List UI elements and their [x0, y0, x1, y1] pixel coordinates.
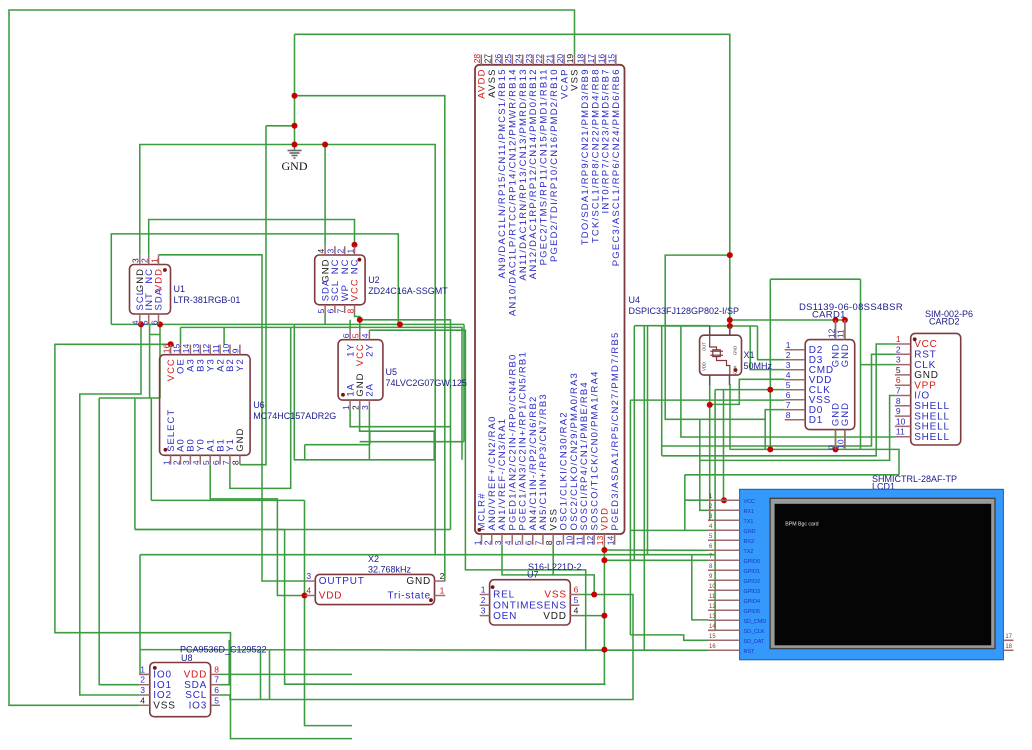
svg-text:GND: GND — [406, 576, 431, 587]
svg-text:5: 5 — [786, 380, 791, 390]
svg-text:U2: U2 — [368, 275, 380, 285]
svg-text:ONTIME: ONTIME — [493, 600, 537, 611]
svg-text:OEN: OEN — [493, 611, 517, 622]
svg-text:6: 6 — [896, 375, 901, 385]
svg-text:15: 15 — [607, 54, 617, 64]
svg-text:10: 10 — [896, 416, 906, 426]
svg-text:1: 1 — [345, 249, 355, 254]
svg-text:1: 1 — [140, 664, 145, 674]
svg-text:5: 5 — [214, 695, 219, 705]
svg-text:11: 11 — [211, 344, 221, 353]
svg-text:11: 11 — [896, 427, 905, 437]
svg-text:4: 4 — [786, 370, 791, 380]
svg-text:GPIO0: GPIO0 — [744, 559, 760, 565]
svg-text:U6: U6 — [253, 400, 265, 410]
svg-text:RX2: RX2 — [744, 539, 755, 545]
svg-text:18: 18 — [576, 54, 586, 64]
svg-text:3: 3 — [306, 571, 311, 581]
svg-text:10: 10 — [221, 343, 231, 353]
svg-text:17: 17 — [1005, 634, 1012, 640]
svg-text:6: 6 — [149, 320, 159, 325]
svg-text:11: 11 — [836, 329, 846, 338]
svg-text:2: 2 — [140, 675, 145, 685]
svg-text:5: 5 — [896, 365, 901, 375]
svg-text:AN10/DAC1LP/RTCC/RP14/CN12/PMW: AN10/DAC1LP/RTCC/RP14/CN12/PMWR/RB14 — [508, 68, 519, 316]
svg-text:2A: 2A — [365, 383, 376, 397]
svg-text:VSS: VSS — [570, 68, 581, 91]
svg-text:4: 4 — [574, 606, 579, 616]
svg-text:16: 16 — [709, 644, 716, 650]
svg-text:MC74HC157ADR2G: MC74HC157ADR2G — [253, 411, 336, 421]
svg-text:TX1: TX1 — [744, 519, 754, 525]
svg-text:1: 1 — [440, 586, 445, 596]
svg-text:6: 6 — [341, 333, 351, 338]
svg-text:2: 2 — [483, 540, 493, 545]
svg-text:TCK/SCL1/RP8/CN22/PMD4/RB8: TCK/SCL1/RP8/CN22/PMD4/RB8 — [590, 68, 601, 243]
svg-text:11: 11 — [709, 594, 716, 600]
svg-text:19: 19 — [565, 54, 575, 64]
svg-text:11: 11 — [575, 536, 585, 545]
svg-text:13: 13 — [595, 535, 605, 545]
svg-text:VDD: VDD — [702, 362, 707, 371]
svg-text:3: 3 — [360, 405, 370, 410]
svg-text:6: 6 — [524, 540, 534, 545]
svg-text:SHELL: SHELL — [914, 432, 950, 443]
svg-text:6: 6 — [786, 390, 791, 400]
svg-text:21: 21 — [545, 54, 555, 64]
svg-text:GND: GND — [282, 159, 308, 173]
svg-text:SENS: SENS — [536, 600, 566, 611]
svg-text:PGEC2/TMS/RP11/CN15/PMD1/RB11: PGEC2/TMS/RP11/CN15/PMD1/RB11 — [539, 68, 550, 265]
svg-text:2: 2 — [896, 344, 901, 354]
svg-text:12: 12 — [201, 343, 211, 353]
svg-text:50MHz: 50MHz — [744, 361, 773, 371]
svg-text:8: 8 — [231, 460, 241, 465]
svg-text:8: 8 — [786, 410, 791, 420]
svg-text:14: 14 — [605, 535, 615, 545]
svg-text:6: 6 — [214, 685, 219, 695]
svg-text:18: 18 — [1005, 644, 1012, 650]
svg-text:VCAP: VCAP — [559, 68, 570, 99]
svg-text:SD_CLK: SD_CLK — [744, 629, 765, 635]
svg-text:15: 15 — [171, 343, 181, 353]
svg-text:3: 3 — [326, 249, 336, 254]
svg-text:17: 17 — [586, 54, 596, 64]
svg-text:5: 5 — [513, 540, 523, 545]
svg-text:6: 6 — [574, 585, 579, 595]
svg-text:CARD2: CARD2 — [929, 317, 960, 327]
svg-text:2: 2 — [336, 249, 346, 254]
svg-text:2: 2 — [351, 405, 361, 410]
svg-text:AVSS: AVSS — [487, 68, 498, 97]
svg-text:VDD: VDD — [319, 591, 343, 602]
svg-text:X2: X2 — [368, 554, 379, 564]
svg-text:16: 16 — [596, 54, 606, 64]
svg-text:2: 2 — [171, 460, 181, 465]
svg-text:74LVC2G07GW,125: 74LVC2G07GW,125 — [386, 378, 467, 388]
svg-text:VSS: VSS — [153, 701, 175, 712]
svg-text:9: 9 — [554, 540, 564, 545]
svg-text:1: 1 — [481, 585, 486, 595]
svg-text:TDO/SDA1/RP9/CN21/PMD3/RB9: TDO/SDA1/RP9/CN21/PMD3/RB9 — [580, 68, 591, 245]
svg-text:25: 25 — [503, 54, 513, 64]
svg-text:26: 26 — [493, 54, 503, 64]
svg-text:3: 3 — [493, 540, 503, 545]
svg-text:3: 3 — [896, 355, 901, 365]
svg-text:1: 1 — [472, 540, 482, 545]
svg-text:U5: U5 — [386, 367, 398, 377]
svg-text:ZD24C16A-SSGMT: ZD24C16A-SSGMT — [368, 286, 448, 296]
svg-text:GPIO1: GPIO1 — [744, 569, 760, 575]
svg-text:3: 3 — [786, 360, 791, 370]
svg-text:7: 7 — [896, 386, 901, 396]
svg-text:5: 5 — [316, 309, 326, 314]
svg-text:12: 12 — [585, 535, 595, 545]
svg-text:2: 2 — [786, 350, 791, 360]
svg-text:VDD: VDD — [543, 611, 567, 622]
svg-text:3: 3 — [181, 460, 191, 465]
svg-text:CARD1: CARD1 — [812, 310, 846, 321]
svg-text:1: 1 — [896, 334, 901, 344]
svg-text:DSPIC33FJ128GP802-I/SP: DSPIC33FJ128GP802-I/SP — [629, 306, 740, 316]
svg-text:2: 2 — [481, 595, 486, 605]
svg-text:10: 10 — [836, 439, 846, 449]
svg-text:2: 2 — [440, 571, 445, 581]
svg-text:14: 14 — [181, 343, 191, 353]
svg-text:6: 6 — [326, 309, 336, 314]
svg-text:3: 3 — [481, 606, 486, 616]
svg-text:2Y: 2Y — [365, 343, 376, 357]
svg-text:4: 4 — [503, 540, 513, 545]
svg-text:RST: RST — [744, 649, 755, 655]
svg-text:IO3: IO3 — [189, 701, 208, 712]
svg-text:AN11/DAC1RN/RP13/CN13/PMRD/RB1: AN11/DAC1RN/RP13/CN13/PMRD/RB13 — [518, 68, 529, 280]
svg-text:4: 4 — [306, 586, 311, 596]
svg-text:4: 4 — [360, 333, 370, 338]
svg-text:U1: U1 — [174, 284, 186, 294]
svg-text:GPIO4: GPIO4 — [744, 599, 760, 605]
svg-text:13: 13 — [191, 343, 201, 353]
svg-text:GND: GND — [744, 529, 756, 535]
svg-text:OUT: OUT — [702, 342, 707, 351]
svg-text:GPIO2: GPIO2 — [744, 579, 760, 585]
svg-text:GND: GND — [840, 343, 851, 367]
svg-text:9: 9 — [896, 406, 901, 416]
svg-text:8: 8 — [896, 396, 901, 406]
svg-text:SD_DAT: SD_DAT — [744, 639, 766, 645]
svg-text:U8: U8 — [181, 653, 193, 663]
svg-text:20: 20 — [555, 54, 565, 64]
svg-text:2: 2 — [140, 258, 150, 263]
svg-text:PCA9536D_C129522: PCA9536D_C129522 — [180, 645, 267, 655]
svg-text:8: 8 — [214, 664, 219, 674]
svg-text:7: 7 — [534, 540, 544, 545]
svg-text:10: 10 — [564, 535, 574, 545]
svg-text:5: 5 — [574, 595, 579, 605]
svg-text:PGED2/TDI/RP10/CN16/PMD2/RB10: PGED2/TDI/RP10/CN16/PMD2/RB10 — [549, 68, 560, 262]
svg-text:Y2: Y2 — [235, 358, 246, 372]
svg-text:4: 4 — [191, 460, 201, 465]
svg-text:AN9/DAC1LN/RP15/CN11/PMCS1/RB1: AN9/DAC1LN/RP15/CN11/PMCS1/RB15 — [497, 68, 508, 278]
svg-text:14: 14 — [709, 624, 716, 630]
svg-text:23: 23 — [524, 54, 534, 64]
svg-text:13: 13 — [709, 614, 716, 620]
svg-text:OUTPUT: OUTPUT — [319, 576, 365, 587]
svg-text:7: 7 — [786, 400, 791, 410]
svg-text:7: 7 — [336, 309, 346, 314]
svg-text:1: 1 — [161, 460, 171, 465]
svg-text:PGEC3/ASCL1/RP6/CN24/PMD6/RB6: PGEC3/ASCL1/RP6/CN24/PMD6/RB6 — [611, 68, 622, 266]
svg-text:28: 28 — [472, 54, 482, 64]
svg-text:5: 5 — [201, 460, 211, 465]
svg-text:GPIO3: GPIO3 — [744, 589, 760, 595]
svg-text:16: 16 — [161, 343, 171, 353]
svg-text:RX1: RX1 — [744, 509, 755, 515]
svg-text:1: 1 — [341, 405, 351, 410]
svg-text:GPIO5: GPIO5 — [744, 609, 760, 615]
svg-text:INT0/RP7/CN23/PMD5/RB7: INT0/RP7/CN23/PMD5/RB7 — [601, 68, 612, 213]
svg-text:8: 8 — [544, 540, 554, 545]
svg-text:VCC: VCC — [350, 278, 361, 301]
svg-text:U4: U4 — [629, 295, 641, 305]
svg-text:VCC: VCC — [744, 499, 755, 505]
svg-text:U7: U7 — [527, 570, 539, 580]
svg-text:PGED3/ASDA1/RP5/CN27/PMD7/RB5: PGED3/ASDA1/RP5/CN27/PMD7/RB5 — [610, 332, 621, 531]
svg-text:X1: X1 — [744, 350, 755, 360]
svg-text:5: 5 — [140, 320, 150, 325]
svg-text:LTR-381RGB-01: LTR-381RGB-01 — [174, 295, 241, 305]
svg-text:VSS: VSS — [544, 590, 566, 601]
svg-text:REL: REL — [493, 590, 515, 601]
svg-text:AVDD: AVDD — [477, 68, 488, 99]
svg-text:VDD: VDD — [154, 268, 165, 291]
svg-text:6: 6 — [211, 460, 221, 465]
svg-text:10: 10 — [709, 584, 716, 590]
svg-text:24: 24 — [514, 54, 524, 64]
svg-text:4: 4 — [316, 249, 326, 254]
svg-text:1: 1 — [149, 258, 159, 263]
svg-text:GND: GND — [733, 346, 738, 355]
svg-text:SOSCO/T1CK/CN0/PMA1/RA4: SOSCO/T1CK/CN0/PMA1/RA4 — [589, 370, 600, 530]
svg-text:GND: GND — [235, 428, 246, 452]
svg-text:SDA: SDA — [154, 288, 165, 311]
svg-text:9: 9 — [231, 348, 241, 353]
svg-text:BPM Bgc card: BPM Bgc card — [785, 522, 818, 528]
svg-text:27: 27 — [482, 54, 492, 64]
svg-text:32.768kHz: 32.768kHz — [368, 565, 412, 575]
svg-text:15: 15 — [709, 634, 716, 640]
svg-text:5: 5 — [351, 333, 361, 338]
svg-text:SD_CMD: SD_CMD — [744, 619, 767, 625]
svg-text:4: 4 — [140, 695, 145, 705]
svg-text:22: 22 — [534, 54, 544, 64]
svg-text:3: 3 — [140, 685, 145, 695]
svg-text:TX2: TX2 — [744, 549, 754, 555]
svg-text:8: 8 — [345, 309, 355, 314]
svg-text:12: 12 — [709, 604, 716, 610]
svg-text:AN12/DAC1RP/RP12/CN14/PMD0/RB1: AN12/DAC1RP/RP12/CN14/PMD0/RB12 — [528, 68, 539, 279]
svg-text:Tri-state: Tri-state — [388, 591, 432, 602]
svg-text:7: 7 — [221, 460, 231, 465]
svg-text:GND: GND — [840, 402, 851, 426]
svg-text:1: 1 — [786, 340, 791, 350]
svg-text:7: 7 — [214, 675, 219, 685]
svg-text:D1: D1 — [809, 415, 823, 426]
